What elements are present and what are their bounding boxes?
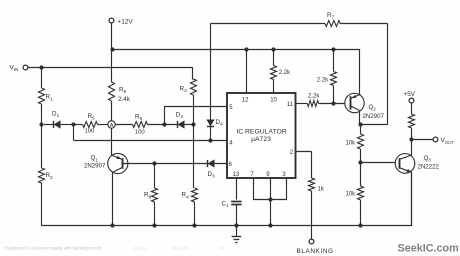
node bracket ground junction: [268, 223, 272, 227]
resistor 1k: [309, 178, 315, 191]
wire pin12 feed: [246, 49, 248, 93]
label 1k: [318, 187, 325, 193]
wire D4 to pin4 wire: [210, 126, 212, 140]
label Q2: [369, 104, 377, 112]
pin 3 label: [282, 172, 286, 178]
wire R4 bottom: [194, 202, 196, 226]
label R6 value 100: [135, 129, 146, 135]
wire 2.2k bottom: [333, 86, 335, 104]
svg-text:VIN: VIN: [10, 65, 19, 73]
svg-text:+5V: +5V: [404, 91, 416, 98]
label R4: [182, 192, 190, 200]
op-amp U1 IC regulator uA723 box: [227, 93, 296, 178]
transistor Q3 emitter: [400, 168, 412, 173]
svg-text:1k: 1k: [318, 187, 325, 193]
node 10k ground junction: [358, 223, 362, 227]
wire R5 to node A: [98, 124, 109, 126]
pin 7 label: [250, 172, 254, 178]
resistor R1: [39, 88, 45, 104]
wire Q2 to 10k: [360, 125, 362, 134]
wire top rail left: [211, 23, 326, 25]
wire top-left down: [210, 24, 212, 120]
transistor Q3 circle: [395, 154, 415, 174]
svg-text:10k: 10k: [346, 191, 357, 197]
label R2: [46, 172, 54, 180]
wire pin5: [164, 107, 227, 125]
node V_OUT junction: [409, 137, 413, 141]
svg-text:Q3: Q3: [424, 155, 432, 163]
svg-text:rev 1.2: rev 1.2: [134, 246, 148, 251]
svg-text:R6: R6: [135, 113, 143, 121]
pin 12 label: [242, 97, 249, 103]
svg-text:R9: R9: [119, 87, 127, 95]
svg-text:D3: D3: [208, 171, 216, 179]
svg-text:μA723: μA723: [251, 136, 271, 143]
wire R1 bottom: [41, 104, 43, 125]
node V_IN junction: [39, 65, 43, 69]
svg-text:10: 10: [270, 97, 277, 103]
node +12V rail junction: [110, 47, 114, 51]
wire node A to R6: [115, 124, 133, 126]
resistor 2.2k pin11: [307, 101, 318, 107]
label BLANKING: [297, 248, 334, 255]
terminal BLANKING: [309, 239, 314, 244]
svg-text:2.2k: 2.2k: [279, 70, 291, 76]
label Q1 type 2N2907: [84, 162, 106, 169]
node 10k divider junction: [358, 160, 362, 164]
wire pin7-9-3 bracket: [253, 199, 287, 201]
resistor 2.2k pin10: [271, 66, 277, 80]
svg-text:R8: R8: [144, 192, 152, 200]
svg-text:a0: a0: [219, 246, 224, 251]
label +5V: [404, 91, 416, 98]
svg-text:BLANKING: BLANKING: [297, 248, 334, 255]
svg-text:100: 100: [135, 129, 146, 135]
wire pin7: [253, 178, 255, 200]
wire R3 to R4: [193, 95, 195, 188]
wire 1k to blanking: [311, 191, 313, 239]
label 2.2k pin10: [279, 70, 291, 76]
pin 13 label: [233, 172, 240, 178]
resistor R7: [325, 21, 340, 27]
wire ground rail: [41, 172, 412, 226]
svg-text:D2: D2: [176, 112, 184, 120]
svg-text:D1: D1: [52, 111, 60, 119]
label Q2 type 2N2907: [363, 113, 385, 120]
terminal V_IN: [23, 65, 28, 70]
wire R7 to Q2 collector: [360, 124, 387, 126]
svg-text:2N2907: 2N2907: [363, 113, 385, 120]
wire 2.2k top: [333, 49, 335, 72]
label R1: [46, 94, 54, 102]
svg-text:2N2907: 2N2907: [84, 162, 106, 169]
wire to R5: [73, 124, 82, 126]
resistor +5V pullup: [409, 114, 415, 128]
label R5: [88, 113, 96, 121]
wire Q3 emitter down: [411, 172, 413, 225]
svg-text:D4: D4: [216, 119, 224, 127]
pin 5 label: [229, 105, 233, 111]
svg-text:R4: R4: [182, 192, 190, 200]
label V_OUT: [441, 137, 455, 145]
label uA723: [251, 136, 271, 143]
transistor Q1 circle: [108, 153, 128, 173]
label R9: [119, 87, 127, 95]
pin 6 label: [229, 162, 233, 168]
resistor R4: [192, 188, 198, 202]
transistor Q3 collector: [400, 155, 412, 159]
wire node A to Q1 emitter: [111, 128, 113, 155]
svg-text:Regulated 5 volt power supply: Regulated 5 volt power supply with blank…: [5, 246, 102, 251]
svg-text:R1: R1: [46, 94, 54, 102]
node D1-R5 junction: [71, 122, 75, 126]
wire D1-junction: [60, 124, 74, 126]
wire +5V down: [411, 103, 413, 114]
transistor Q2 base bar: [350, 96, 352, 109]
resistor R9 2.4k: [109, 82, 115, 101]
node bracket junction: [268, 197, 272, 201]
resistor R3: [191, 79, 197, 95]
wire 10k bottom: [360, 200, 362, 226]
watermark SeekIC.com: [398, 243, 459, 255]
transistor Q3 base bar: [399, 158, 401, 169]
svg-text:R3: R3: [180, 85, 188, 93]
svg-text:R2: R2: [46, 172, 54, 180]
label D2: [176, 112, 184, 120]
node A: [108, 121, 115, 129]
node Q2 base junction: [331, 101, 335, 105]
diode D1: [44, 121, 60, 128]
resistor R2: [39, 168, 45, 183]
svg-text:SeekIC.com: SeekIC.com: [398, 243, 459, 255]
wire D2 to R3 line: [184, 124, 194, 126]
diode D4: [207, 120, 214, 127]
node pin10 rail junction: [271, 47, 275, 51]
wire pin9: [270, 178, 272, 200]
pin 10 label: [270, 97, 277, 103]
wire R2 bottom: [41, 183, 43, 226]
label Q3 type 2N2222: [418, 163, 440, 170]
wire pin11: [296, 103, 308, 105]
resistor R6 100: [133, 122, 148, 128]
svg-text:13: 13: [233, 172, 240, 178]
wire R2 top: [41, 125, 43, 168]
transistor Q2 collector: [350, 106, 360, 111]
wire +12V rail: [112, 49, 360, 51]
transistor Q1 emitter: [112, 155, 122, 159]
wire +12V feed: [111, 23, 113, 82]
label R6: [135, 113, 143, 121]
svg-text:IC REGULATOR: IC REGULATOR: [236, 128, 286, 135]
wire pin10 feed bottom: [273, 80, 275, 94]
diode D2: [178, 121, 185, 128]
svg-text:11: 11: [287, 102, 294, 108]
wire 2.2k to Q2 base: [319, 103, 345, 105]
svg-text:12: 12: [242, 97, 249, 103]
label D3: [208, 171, 216, 179]
pin 11 label: [287, 102, 294, 108]
wire to V_OUT: [412, 139, 433, 141]
wire bracket down: [270, 200, 272, 226]
node 2.2k rail junction: [331, 47, 335, 51]
node R8 ground junction: [152, 223, 156, 227]
label D1: [52, 111, 60, 119]
terminal V_OUT: [433, 137, 438, 142]
wire divider to Q3 base: [360, 162, 395, 164]
node R8 junction: [152, 161, 156, 165]
node Q2 collector junction: [358, 122, 362, 126]
svg-text:2.2k: 2.2k: [308, 93, 320, 99]
transistor Q2 emitter: [350, 94, 360, 98]
svg-text:2N2222: 2N2222: [418, 163, 440, 170]
wire R6 to junction: [148, 124, 178, 126]
label R5 value 100: [85, 128, 96, 134]
label 10k lower: [346, 191, 357, 197]
wire pin2: [296, 152, 312, 179]
wire pin13: [236, 178, 238, 200]
resistor R8: [152, 188, 158, 202]
svg-text:100: 100: [85, 128, 96, 134]
label R8: [144, 192, 152, 200]
diode D3: [208, 160, 215, 167]
ground: [232, 226, 242, 243]
svg-text:+12V: +12V: [118, 19, 134, 26]
label +12V: [118, 19, 134, 26]
wire Q2 collector down: [359, 111, 361, 125]
transistor Q1 collector: [112, 168, 122, 173]
wire Q1 base to pin6: [122, 163, 227, 165]
label 2.2k mid: [317, 77, 329, 83]
wire Vin to R3: [193, 67, 194, 80]
label D4: [216, 119, 224, 127]
transistor Q2 circle: [345, 93, 364, 112]
wire pin3: [286, 178, 288, 200]
wire R8 top: [154, 163, 156, 188]
label 10k upper: [346, 141, 357, 147]
label C1: [222, 200, 230, 208]
node D2-R3 junction: [191, 122, 195, 126]
svg-text:10k: 10k: [346, 141, 357, 147]
wire R7 down: [387, 24, 389, 125]
label 2.2k pin11: [308, 93, 320, 99]
svg-text:C1: C1: [222, 200, 230, 208]
resistor 10k lower: [358, 186, 364, 200]
node R6-D2 junction: [162, 122, 166, 126]
wire top rail right: [340, 23, 387, 25]
node R1-D1 junction: [39, 122, 43, 126]
wire R1 top: [41, 67, 43, 88]
node pin12 rail junction: [244, 47, 248, 51]
wire Q3 collector up: [411, 140, 413, 155]
label R7: [327, 12, 335, 20]
terminal +5V: [409, 98, 414, 103]
label V_IN: [10, 65, 19, 73]
pin 2 label: [290, 150, 294, 156]
label Q1: [91, 155, 99, 163]
wire R9 to node A: [111, 101, 113, 122]
caption faint text: [5, 246, 224, 251]
wire pin4: [73, 125, 227, 141]
wire Q1 collector down: [112, 173, 114, 226]
wire +12V to Q2 emitter: [359, 49, 362, 95]
node D4 junction: [208, 138, 212, 142]
svg-text:A: A: [110, 123, 114, 129]
wire 10k mid: [360, 149, 362, 186]
terminal +12V: [109, 18, 114, 23]
resistor 10k upper: [358, 134, 364, 149]
node C1 ground junction: [234, 223, 238, 227]
svg-text:sht 1 of 1: sht 1 of 1: [172, 246, 190, 251]
transistor Q1 base bar: [122, 158, 124, 169]
wire V_IN rail: [27, 67, 193, 69]
svg-text:R5: R5: [88, 113, 96, 121]
svg-text:VOUT: VOUT: [441, 137, 455, 145]
svg-text:2.4k: 2.4k: [118, 96, 131, 103]
pin 4 label: [229, 141, 233, 147]
svg-text:R7: R7: [327, 12, 335, 20]
label R3: [180, 85, 188, 93]
wire R8 bottom: [154, 202, 156, 226]
node Q1 ground junction: [110, 223, 114, 227]
label Q3: [424, 155, 432, 163]
node R4 ground junction: [192, 223, 196, 227]
wire pin10 feed top: [273, 49, 275, 66]
wire C1 bottom: [236, 205, 238, 226]
wire pullup to Vout: [411, 128, 413, 140]
svg-text:Q2: Q2: [369, 104, 377, 112]
label IC REGULATOR: [236, 128, 286, 135]
capacitor C1: [231, 202, 241, 205]
resistor 2.2k mid: [331, 72, 337, 86]
resistor R5 100: [83, 122, 98, 128]
label R9 value 2.4k: [118, 96, 131, 103]
svg-text:2.2k: 2.2k: [317, 77, 329, 83]
svg-text:Q1: Q1: [91, 155, 99, 163]
pin 9 label: [266, 172, 270, 178]
